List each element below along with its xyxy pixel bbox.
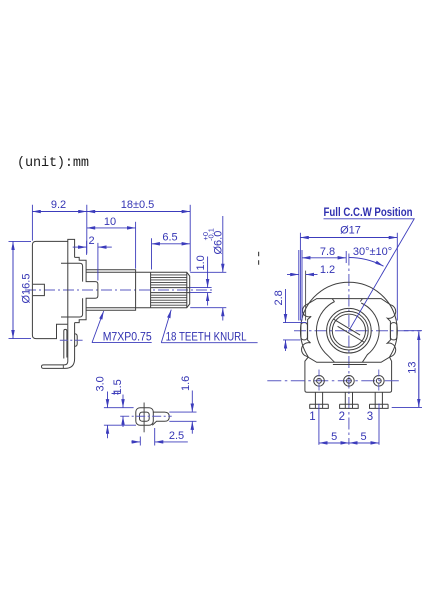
centerline of shaft (side view) bbox=[25, 289, 213, 291]
knurl slot edges bbox=[151, 288, 190, 293]
bushing boss profile bbox=[75, 257, 98, 322]
horizontal centerline bbox=[294, 330, 421, 332]
svg-text:5: 5 bbox=[361, 431, 367, 443]
lug head bbox=[136, 408, 154, 426]
svg-text:2.8: 2.8 bbox=[273, 290, 285, 305]
terminal 3 bbox=[370, 392, 389, 408]
dimension 30°±10° with arc bbox=[349, 246, 392, 266]
base wafer top edge bbox=[333, 364, 367, 366]
rotor hub circle bbox=[327, 308, 372, 353]
rivet 2 bbox=[344, 376, 355, 387]
cover side notch right bbox=[390, 323, 397, 340]
dimension 3.0 bbox=[95, 376, 137, 438]
dimension Ø6.0 +0/-0.1 bbox=[190, 216, 226, 321]
svg-text:6.5: 6.5 bbox=[162, 231, 177, 243]
svg-text:2.5: 2.5 bbox=[169, 430, 184, 442]
shaft Ø6 lines through bushing bbox=[86, 272, 151, 307]
dimension 13 bbox=[392, 331, 422, 408]
svg-text:5: 5 bbox=[331, 431, 337, 443]
cover side notch left bbox=[301, 323, 308, 340]
label M7XP0.75 with leader bbox=[92, 311, 152, 343]
svg-text:3: 3 bbox=[367, 411, 373, 423]
svg-text:M7XP0.75: M7XP0.75 bbox=[103, 331, 152, 343]
svg-text:13: 13 bbox=[406, 362, 418, 374]
dimension 7.8 bbox=[302, 246, 346, 321]
small double arrow mark bbox=[112, 393, 121, 395]
rotor ring right arc bbox=[361, 303, 379, 362]
terminal 1 bbox=[310, 392, 329, 408]
lug foot bend tick bbox=[62, 365, 64, 368]
lug centerline bbox=[60, 339, 83, 341]
svg-text:7.8: 7.8 bbox=[320, 246, 335, 258]
dimension 18±0.5 bbox=[87, 199, 190, 272]
lug front strip bbox=[64, 329, 67, 358]
svg-text:30°±10°: 30°±10° bbox=[353, 246, 392, 258]
shaft end inner circle bbox=[332, 314, 365, 347]
dimension 2.8 bbox=[273, 289, 307, 351]
svg-text:1.2: 1.2 bbox=[320, 264, 335, 276]
svg-text:1.6: 1.6 bbox=[180, 376, 192, 391]
svg-text:18±0.5: 18±0.5 bbox=[121, 199, 155, 211]
dimension 1.5 bbox=[112, 379, 124, 427]
svg-text:-0.1: -0.1 bbox=[207, 228, 216, 241]
label Full C.C.W Position with leader bbox=[324, 207, 415, 331]
svg-text:(unit):mm: (unit):mm bbox=[17, 156, 89, 171]
svg-text:18 TEETH KNURL: 18 TEETH KNURL bbox=[166, 331, 248, 343]
rivet centerline bbox=[267, 380, 399, 382]
outer cover circle Ø17 bbox=[301, 282, 398, 357]
rivet 3 bbox=[374, 376, 385, 387]
base wafer bbox=[305, 357, 392, 392]
svg-text:Ø16.5: Ø16.5 bbox=[21, 274, 33, 304]
svg-text:Full C.C.W Position: Full C.C.W Position bbox=[324, 207, 413, 219]
knurled shaft outline bbox=[151, 272, 190, 307]
svg-text:10: 10 bbox=[104, 216, 116, 228]
svg-text:2: 2 bbox=[88, 235, 94, 247]
svg-text:Ø17: Ø17 bbox=[340, 225, 361, 237]
rivet 1 bbox=[314, 376, 325, 387]
lug rivet bump bbox=[75, 334, 78, 347]
rotor stop lugs bbox=[332, 299, 362, 302]
dimension 5 (left) bbox=[319, 404, 349, 445]
dimension 2.5 bbox=[131, 428, 188, 446]
dimension Ø17 bbox=[300, 225, 397, 321]
svg-text:3.0: 3.0 bbox=[95, 376, 107, 391]
lug centerline bbox=[120, 415, 172, 417]
stray centerline dashes between views bbox=[258, 252, 260, 265]
svg-text:2: 2 bbox=[339, 411, 345, 423]
dimension 1.2 bbox=[287, 250, 335, 321]
svg-text:9.2: 9.2 bbox=[51, 199, 66, 211]
front plate / mounting bracket upper strip bbox=[68, 239, 75, 324]
dimension 1.6 bbox=[169, 376, 196, 434]
lug section line bbox=[143, 403, 145, 433]
dimension 1.0 (slot width) bbox=[190, 255, 212, 305]
threaded bushing (M7) bbox=[86, 270, 136, 311]
lug hole bbox=[140, 412, 150, 421]
rivet 3 centerline bbox=[378, 370, 380, 393]
shaft end outer circle bbox=[330, 311, 369, 350]
rotor stop tab lobe arc bbox=[316, 302, 334, 363]
vertical centerline bbox=[348, 254, 350, 445]
dimension 9.2 bbox=[32, 199, 86, 254]
dimension 2 bbox=[73, 235, 112, 280]
dimension 5 (right) bbox=[349, 404, 379, 445]
body left slot detent bbox=[33, 284, 45, 295]
cover face plate with corner bay notches bbox=[302, 299, 396, 363]
dimension 10 bbox=[87, 216, 136, 269]
svg-text:1: 1 bbox=[309, 411, 315, 423]
lug tab bbox=[152, 412, 169, 425]
rivet 1 centerline bbox=[318, 370, 320, 393]
knurl teeth lines bbox=[151, 275, 187, 305]
label 18 TEETH KNURL with leader bbox=[161, 310, 257, 344]
svg-text:1.5: 1.5 bbox=[112, 379, 124, 394]
dimension Ø16.5 bbox=[9, 241, 33, 338]
inner hub (rotor housing, side view) bbox=[61, 263, 83, 317]
body can (side view) bbox=[32, 241, 67, 338]
dimension 6.5 bbox=[152, 231, 191, 269]
mounting lug lower strip with foot bbox=[42, 323, 75, 369]
svg-text:1.0: 1.0 bbox=[195, 255, 207, 270]
screwdriver slot bbox=[333, 319, 364, 343]
terminal 2 bbox=[340, 392, 359, 408]
